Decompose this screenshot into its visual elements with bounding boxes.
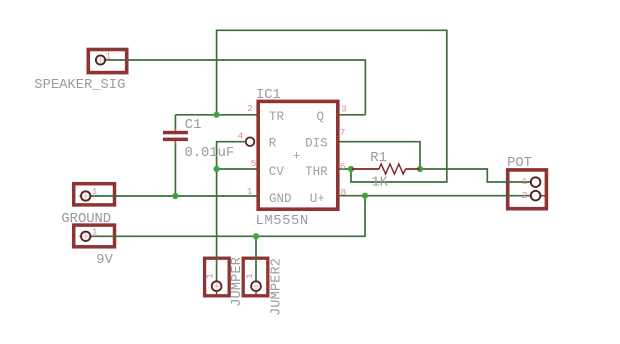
svg-text:POT: POT	[507, 156, 532, 171]
connector GROUND box	[74, 184, 115, 205]
svg-text:JUMPER2: JUMPER2	[269, 258, 284, 316]
svg-text:DIS: DIS	[305, 137, 328, 151]
svg-text:C1: C1	[185, 118, 202, 133]
svg-text:1K: 1K	[371, 175, 388, 190]
pin 4 inversion bubble	[246, 137, 255, 146]
svg-text:1: 1	[205, 273, 216, 279]
POT pin2 lead tick	[536, 195, 546, 197]
svg-text:3: 3	[341, 103, 347, 114]
svg-text:U+: U+	[310, 192, 325, 206]
svg-text:1: 1	[92, 186, 98, 197]
svg-text:0.01uF: 0.01uF	[185, 146, 235, 161]
svg-text:TR: TR	[269, 110, 285, 124]
svg-text:1: 1	[244, 273, 255, 279]
pin circle JUMPER	[212, 281, 222, 294]
wire: speaker signal to Q (pin3)	[105, 60, 366, 115]
resistor R1	[352, 164, 420, 174]
POT pin circles	[531, 177, 541, 200]
junction node 9V/JUMPER2	[253, 233, 259, 239]
svg-text:SPEAKER_SIG: SPEAKER_SIG	[34, 78, 125, 93]
junction node C1 bottom/GND	[172, 193, 178, 199]
svg-text:1: 1	[247, 186, 253, 197]
wire: Q (pin3) to riser	[338, 114, 365, 116]
wire: GROUND to GND (pin1)	[90, 195, 258, 197]
connector SPEAKER_SIG box	[88, 50, 126, 73]
wire: JUMPER2 drop	[255, 236, 257, 281]
connector POT box	[508, 170, 547, 209]
svg-text:Q: Q	[317, 110, 325, 124]
svg-text:6: 6	[340, 161, 346, 172]
junction node THR/R1 left	[348, 166, 354, 172]
svg-text:2: 2	[247, 103, 253, 114]
svg-text:JUMPER: JUMPER	[230, 257, 245, 307]
wire: TR top loop to THR (below R1)	[217, 30, 447, 182]
wire: DIS (pin7) to R1 right	[338, 142, 420, 169]
svg-text:8: 8	[341, 187, 347, 198]
svg-text:9V: 9V	[96, 253, 113, 268]
pin circle JUMPER2	[251, 281, 261, 294]
svg-text:CV: CV	[269, 165, 285, 179]
svg-text:1: 1	[106, 51, 112, 62]
svg-text:LM555N: LM555N	[256, 214, 309, 229]
junction node V+/9V	[362, 193, 368, 199]
svg-text:5: 5	[251, 158, 257, 169]
connector JUMPER box	[205, 258, 230, 296]
junction node CV/jumper	[214, 166, 220, 172]
wire: C1 vertical bottom	[174, 143, 176, 196]
svg-text:+: +	[293, 150, 301, 164]
wire: R pin4 net down to JUMPER	[217, 142, 246, 282]
svg-text:7: 7	[340, 127, 346, 138]
svg-text:THR: THR	[305, 165, 328, 179]
wire: C1 vertical top	[174, 115, 176, 129]
wire: 9V to V+ riser	[90, 196, 365, 237]
svg-text:GND: GND	[269, 192, 292, 206]
svg-text:4: 4	[238, 130, 244, 141]
junction node TR/C1/loop	[214, 112, 220, 118]
wire: THR (pin6)	[338, 168, 353, 170]
pin circle GROUND	[79, 191, 91, 200]
svg-text:2: 2	[522, 190, 528, 201]
svg-text:1: 1	[92, 226, 98, 237]
svg-text:R: R	[269, 137, 277, 151]
capacitor C1 plates	[163, 127, 188, 146]
svg-text:1: 1	[522, 176, 528, 187]
wire: R1 right to POT pin1	[420, 169, 531, 182]
junction node R1 right/DIS	[417, 166, 423, 172]
svg-text:IC1: IC1	[256, 88, 281, 103]
wire: CV (pin5)	[217, 168, 258, 170]
svg-text:GROUND: GROUND	[61, 212, 111, 227]
pin circle 9V	[79, 232, 91, 241]
connector 9V box	[74, 225, 115, 247]
connector JUMPER2 box	[243, 258, 268, 296]
timer IC1 LM555N body	[258, 101, 338, 209]
wire: V+ (pin8) to POT pin2	[338, 195, 531, 197]
pin circle SPEAKER_SIG	[96, 55, 105, 64]
svg-text:R1: R1	[370, 151, 387, 166]
wire: C1 top to TR (pin2)	[175, 114, 257, 116]
